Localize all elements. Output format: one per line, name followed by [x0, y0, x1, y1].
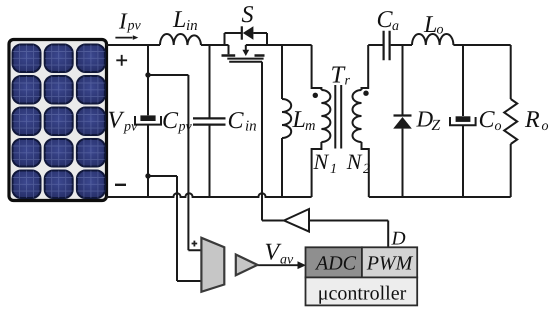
wire top bus left [106, 44, 160, 46]
svg-text:in: in [245, 119, 257, 135]
svg-text:L: L [292, 107, 306, 133]
wire Cpv branch lower [147, 125, 149, 197]
ADC block [306, 247, 362, 277]
svg-text:N: N [313, 149, 330, 174]
svg-text:C: C [377, 7, 394, 33]
svg-text:pv: pv [127, 19, 142, 34]
wire Lm branch [281, 45, 283, 197]
mosfet S gate lead [261, 62, 263, 221]
transformer primary lead bottom [312, 142, 322, 197]
transformer primary lead top [312, 45, 322, 90]
svg-text:V: V [108, 108, 125, 134]
microcontroller block [306, 277, 418, 305]
transformer primary winding N1 [321, 90, 330, 142]
wire Cin branch [209, 45, 211, 197]
wire inverter to gate [262, 220, 284, 222]
svg-text:av: av [280, 253, 294, 268]
svg-text:V: V [265, 240, 282, 266]
wire pwm D to inverter [309, 221, 388, 248]
svg-text:μcontroller: μcontroller [318, 283, 407, 305]
svg-text:r: r [345, 74, 351, 89]
op-amp plus sign [192, 241, 198, 247]
svg-text:pv: pv [123, 120, 138, 135]
wire top bus mid [201, 44, 225, 46]
svg-text:S: S [242, 2, 254, 28]
wire Co branch top [462, 45, 464, 116]
PWM block [362, 247, 417, 277]
node dot secondary polarity [363, 91, 368, 96]
label minus terminal [115, 184, 126, 186]
capacitor Cpv [135, 115, 161, 124]
mosfet S channel [227, 58, 263, 60]
transformer core [335, 85, 341, 149]
capacitor Co [450, 116, 476, 125]
svg-text:o: o [495, 119, 502, 134]
transformer secondary lead top [362, 45, 369, 90]
PV panel frame [9, 40, 107, 201]
svg-text:ADC: ADC [314, 253, 357, 275]
op-amp averaging trapezoid [201, 238, 224, 292]
wire buffer to ADC [257, 264, 299, 266]
svg-text:1: 1 [330, 162, 337, 177]
mosfet S gate plate [229, 61, 262, 63]
svg-text:C: C [228, 108, 245, 134]
capacitor Ca plates [384, 31, 390, 60]
wire Ro branch top [510, 45, 512, 99]
svg-text:R: R [524, 107, 540, 133]
svg-text:o: o [542, 119, 549, 134]
wire Ro bottom [510, 144, 512, 197]
mosfet S body arrowhead [242, 50, 249, 56]
inductor Lm [282, 99, 291, 138]
mosfet S contacts [222, 54, 265, 56]
inductor Lin [160, 34, 201, 45]
wire Dz branch top [402, 45, 404, 115]
svg-text:C: C [479, 107, 496, 133]
label plus terminal [116, 55, 127, 66]
wire PV+ sense [148, 75, 201, 250]
svg-text:Z: Z [432, 117, 441, 134]
svg-text:I: I [118, 8, 128, 33]
inverter gate driver triangle [284, 209, 309, 232]
svg-text:C: C [162, 108, 179, 134]
buffer triangle [236, 255, 258, 276]
svg-text:D: D [391, 229, 406, 250]
wire top bus right [453, 44, 510, 46]
svg-text:2: 2 [363, 162, 370, 177]
mosfet S drain stub [228, 45, 230, 54]
arrowhead Vav into ADC [298, 261, 307, 269]
node dot PV- tap [145, 173, 150, 178]
svg-text:a: a [392, 19, 399, 34]
wire PV- sense [148, 176, 201, 281]
wire Co bottom [462, 125, 464, 197]
svg-text:L: L [423, 12, 437, 38]
wire Ca to Lo [391, 44, 412, 46]
transformer secondary lead bottom [362, 142, 369, 197]
svg-text:in: in [186, 18, 198, 34]
diode Dz [393, 116, 412, 129]
node dot PV+ tap [145, 72, 150, 77]
svg-text:PWM: PWM [366, 253, 414, 275]
wire mosfet loop [225, 33, 312, 45]
mosfet S body arrow line [245, 45, 247, 51]
node dot primary polarity [313, 93, 318, 98]
wire bottom bus right [369, 196, 511, 198]
svg-text:N: N [346, 149, 363, 174]
transformer secondary winding N2 [353, 90, 362, 142]
inductor Lo [412, 34, 453, 45]
svg-text:m: m [305, 118, 315, 134]
diode body of S [242, 26, 254, 39]
capacitor Cin plates [193, 118, 226, 124]
arrow Ipv [115, 37, 132, 39]
svg-text:pv: pv [178, 120, 193, 135]
wire bottom bus with hops [106, 193, 312, 197]
svg-text:o: o [437, 23, 444, 38]
svg-text:L: L [172, 7, 186, 33]
resistor Ro [504, 99, 517, 144]
PV cells [13, 45, 105, 199]
wire Ca left [368, 44, 382, 46]
wire Dz bottom [402, 129, 404, 197]
wire Cpv branch upper [147, 45, 149, 115]
